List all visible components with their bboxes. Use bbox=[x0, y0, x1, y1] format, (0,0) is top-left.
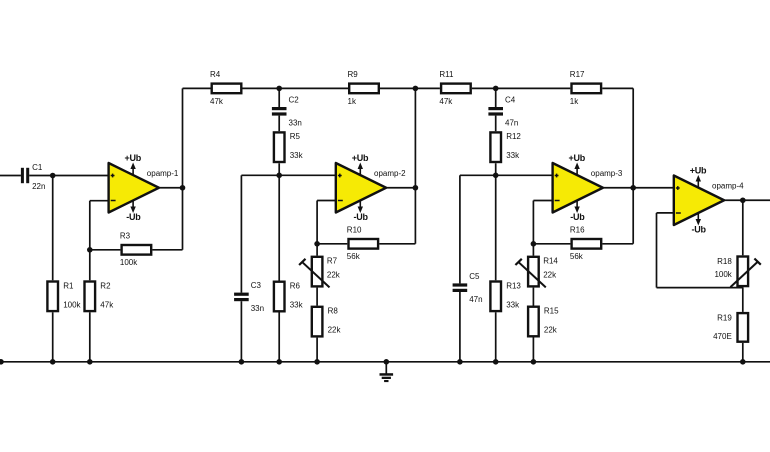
svg-text:R17: R17 bbox=[570, 70, 585, 79]
svg-text:33n: 33n bbox=[251, 304, 264, 313]
svg-text:R11: R11 bbox=[439, 70, 454, 79]
svg-text:47k: 47k bbox=[100, 300, 114, 309]
svg-text:47k: 47k bbox=[210, 97, 224, 106]
svg-text:47k: 47k bbox=[439, 97, 453, 106]
svg-text:1k: 1k bbox=[348, 97, 357, 106]
svg-text:22k: 22k bbox=[544, 326, 558, 335]
svg-text:R16: R16 bbox=[570, 226, 585, 235]
svg-text:R14: R14 bbox=[543, 257, 558, 266]
svg-text:33k: 33k bbox=[506, 300, 520, 309]
svg-text:1k: 1k bbox=[570, 97, 579, 106]
svg-text:R8: R8 bbox=[328, 307, 339, 316]
svg-text:22k: 22k bbox=[328, 326, 342, 335]
svg-text:56k: 56k bbox=[347, 252, 361, 261]
svg-text:100k: 100k bbox=[63, 300, 81, 309]
svg-text:R19: R19 bbox=[717, 313, 732, 322]
svg-text:R12: R12 bbox=[506, 132, 521, 141]
svg-text:+Ub: +Ub bbox=[352, 153, 369, 163]
svg-text:-Ub: -Ub bbox=[691, 224, 706, 234]
svg-text:R9: R9 bbox=[348, 70, 359, 79]
svg-text:R13: R13 bbox=[506, 281, 521, 290]
svg-text:C5: C5 bbox=[469, 272, 480, 281]
svg-text:R3: R3 bbox=[120, 232, 131, 241]
svg-text:-Ub: -Ub bbox=[353, 212, 368, 222]
svg-text:R15: R15 bbox=[544, 307, 559, 316]
svg-text:47n: 47n bbox=[469, 295, 482, 304]
svg-text:47n: 47n bbox=[505, 119, 518, 128]
svg-text:470E: 470E bbox=[713, 332, 732, 341]
svg-text:R18: R18 bbox=[717, 257, 732, 266]
svg-text:100k: 100k bbox=[714, 270, 732, 279]
svg-text:R1: R1 bbox=[63, 281, 74, 290]
svg-text:R6: R6 bbox=[290, 282, 301, 291]
svg-text:22k: 22k bbox=[543, 270, 557, 279]
svg-text:-Ub: -Ub bbox=[126, 212, 141, 222]
svg-text:56k: 56k bbox=[570, 252, 584, 261]
svg-text:opamp-3: opamp-3 bbox=[591, 169, 623, 178]
svg-text:33k: 33k bbox=[290, 151, 304, 160]
svg-text:opamp-2: opamp-2 bbox=[374, 169, 406, 178]
svg-text:33k: 33k bbox=[506, 151, 520, 160]
svg-text:100k: 100k bbox=[120, 258, 138, 267]
svg-text:C1: C1 bbox=[32, 163, 43, 172]
svg-text:+Ub: +Ub bbox=[569, 153, 586, 163]
svg-text:opamp-4: opamp-4 bbox=[712, 181, 744, 190]
svg-text:33k: 33k bbox=[290, 301, 304, 310]
svg-text:R5: R5 bbox=[290, 132, 301, 141]
svg-text:R4: R4 bbox=[210, 70, 221, 79]
svg-text:opamp-1: opamp-1 bbox=[147, 169, 179, 178]
svg-text:22n: 22n bbox=[32, 182, 45, 191]
svg-text:+Ub: +Ub bbox=[690, 165, 707, 175]
svg-text:-Ub: -Ub bbox=[570, 212, 585, 222]
svg-text:R2: R2 bbox=[100, 281, 111, 290]
svg-text:C2: C2 bbox=[289, 95, 300, 104]
svg-text:22k: 22k bbox=[327, 270, 341, 279]
svg-text:33n: 33n bbox=[289, 119, 302, 128]
svg-text:R7: R7 bbox=[327, 257, 338, 266]
svg-text:C3: C3 bbox=[251, 281, 262, 290]
svg-text:R10: R10 bbox=[347, 226, 362, 235]
svg-text:C4: C4 bbox=[505, 95, 516, 104]
svg-text:+Ub: +Ub bbox=[125, 153, 142, 163]
